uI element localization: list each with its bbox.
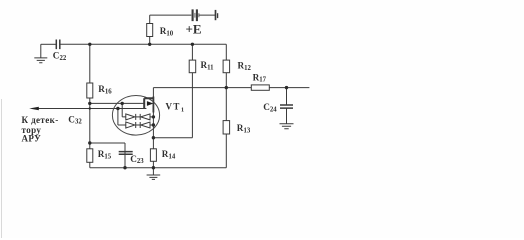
svg-text:R12: R12 xyxy=(238,61,252,72)
svg-text:АРУ: АРУ xyxy=(22,134,42,144)
svg-text:C32: C32 xyxy=(68,114,82,125)
wire from +E capacitor to terminal xyxy=(199,14,216,16)
capacitor C22 xyxy=(56,40,60,50)
capacitor +E feedthrough xyxy=(193,9,197,21)
svg-text:R17: R17 xyxy=(253,72,267,83)
transistor VT1 envelope circle xyxy=(112,96,159,136)
terminal pin xyxy=(215,10,217,20)
arrow to AGC detector xyxy=(29,107,39,110)
wire top from R10 to +E capacitor xyxy=(150,14,192,16)
node ground-C23 xyxy=(123,166,126,169)
wire rail main xyxy=(60,43,226,45)
node output-C24 xyxy=(285,86,288,89)
node ground-R14 xyxy=(152,166,155,169)
protection diode VD2 xyxy=(139,114,141,120)
svg-text:R10: R10 xyxy=(160,26,174,37)
resistor R10 xyxy=(149,15,151,44)
node drain-R12R13 xyxy=(225,86,228,89)
svg-text:C22: C22 xyxy=(53,51,67,62)
wire R12 R13 column xyxy=(225,44,227,167)
wire C24 stub xyxy=(286,88,288,124)
node gate1-diode xyxy=(121,102,124,105)
wire R16 column xyxy=(89,44,91,167)
wire drain line xyxy=(153,87,309,89)
svg-text:C24: C24 xyxy=(263,102,277,113)
node gate1-R16 xyxy=(88,102,91,105)
protection diode VD3 xyxy=(126,122,135,128)
wire diode row1 right xyxy=(150,116,153,118)
node R15-C23 xyxy=(88,141,91,144)
wire diode row2 middle xyxy=(136,124,141,126)
svg-text:C23: C23 xyxy=(130,154,144,165)
svg-text:R16: R16 xyxy=(98,84,112,95)
resistor R14 xyxy=(150,149,156,162)
svg-text:VT1: VT1 xyxy=(166,102,186,114)
wire gate1 line xyxy=(90,102,145,104)
node rail-R10 xyxy=(148,43,151,46)
ground at C24 xyxy=(280,124,294,129)
wire source to R14 xyxy=(152,138,154,168)
wire VT column drain-channel-source xyxy=(152,88,154,138)
capacitor C24 xyxy=(280,105,293,108)
ground at R14 xyxy=(147,168,161,180)
node source-diode1 xyxy=(152,115,155,118)
svg-text:R11: R11 xyxy=(201,60,215,71)
node rail-R11 xyxy=(191,43,194,46)
wire R11 column xyxy=(191,44,193,137)
junction node dots xyxy=(88,43,288,170)
wire diode row1 middle xyxy=(136,116,141,118)
wire rail left segment to C22 xyxy=(41,43,56,45)
wire C23 branch xyxy=(90,143,125,168)
wire diode row2 right xyxy=(150,124,153,126)
terminal tick xyxy=(217,13,219,18)
node source-diode2 xyxy=(152,123,155,126)
svg-text:К детек-: К детек- xyxy=(22,115,59,125)
wire diode row1 lead xyxy=(122,103,126,117)
resistor R17 xyxy=(251,85,269,90)
node gate2-R16col xyxy=(89,107,91,109)
protection diode VD4 xyxy=(139,122,141,128)
wire R11 bottom to source node xyxy=(153,137,192,139)
svg-text:R15: R15 xyxy=(98,149,112,160)
transistor VT1 mosfet body xyxy=(144,98,153,108)
svg-text:+E: +E xyxy=(186,22,202,37)
protection diode VD1 xyxy=(126,114,135,120)
wire gate2 line from arrow xyxy=(37,108,147,110)
transistor VT1 substrate arrow xyxy=(147,101,154,106)
node rail-R16 xyxy=(88,43,91,46)
resistor R12 xyxy=(223,60,230,73)
ground at C22 xyxy=(34,44,47,63)
resistor R11 xyxy=(189,60,196,73)
wire diode row2 lead xyxy=(118,109,126,126)
svg-text:R13: R13 xyxy=(237,123,251,134)
wire bottom ground line xyxy=(90,167,227,169)
resistor R16 xyxy=(87,83,93,98)
scan artifact left edge line xyxy=(1,99,3,238)
resistor R13 xyxy=(223,121,230,134)
capacitor C23 xyxy=(119,152,133,155)
svg-text:R14: R14 xyxy=(162,149,176,160)
resistor R15 xyxy=(87,149,93,163)
node gate2-diode xyxy=(116,107,119,110)
node source-R11 xyxy=(152,136,155,139)
capacitor +E feedthrough small ticks xyxy=(195,13,199,18)
transistor channel emphasis xyxy=(152,97,154,113)
